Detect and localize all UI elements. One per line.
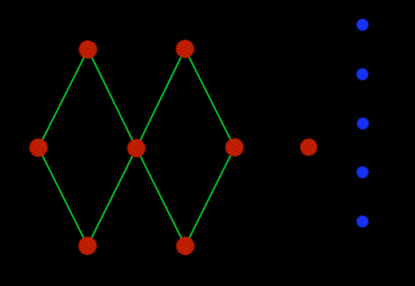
wire edge L-B1 xyxy=(39,148,88,246)
node C4 (blue chain dot 4) xyxy=(357,166,369,178)
node L (red hatched vertex, middle left) xyxy=(29,138,47,156)
node R (red hatched vertex, middle right) xyxy=(225,138,243,156)
node C5 (blue chain dot 5) xyxy=(357,216,369,228)
wire edge T1-L xyxy=(39,50,89,148)
node B2 (red hatched vertex, bottom right) xyxy=(176,237,194,255)
node B1 (red hatched vertex, bottom left) xyxy=(78,237,96,255)
node M (red hatched vertex, middle center) xyxy=(127,139,145,157)
wire edge M-B1 xyxy=(88,148,137,246)
wire edge M-B2 xyxy=(136,148,185,246)
node C3 (blue chain dot 3) xyxy=(357,118,369,130)
wire edge T2-R xyxy=(185,49,235,147)
node ISO (isolated red hatched vertex) xyxy=(300,139,317,156)
node T1 (red hatched vertex, top left) xyxy=(79,40,97,58)
node T2 (red hatched vertex, top right) xyxy=(176,40,194,58)
node C2 (blue chain dot 2) xyxy=(356,68,368,80)
wire edge T1-M xyxy=(88,50,136,149)
wire edge T2-M xyxy=(136,49,185,148)
wire edge R-B2 xyxy=(185,147,234,246)
node C1 (blue chain dot 1) xyxy=(357,19,369,31)
